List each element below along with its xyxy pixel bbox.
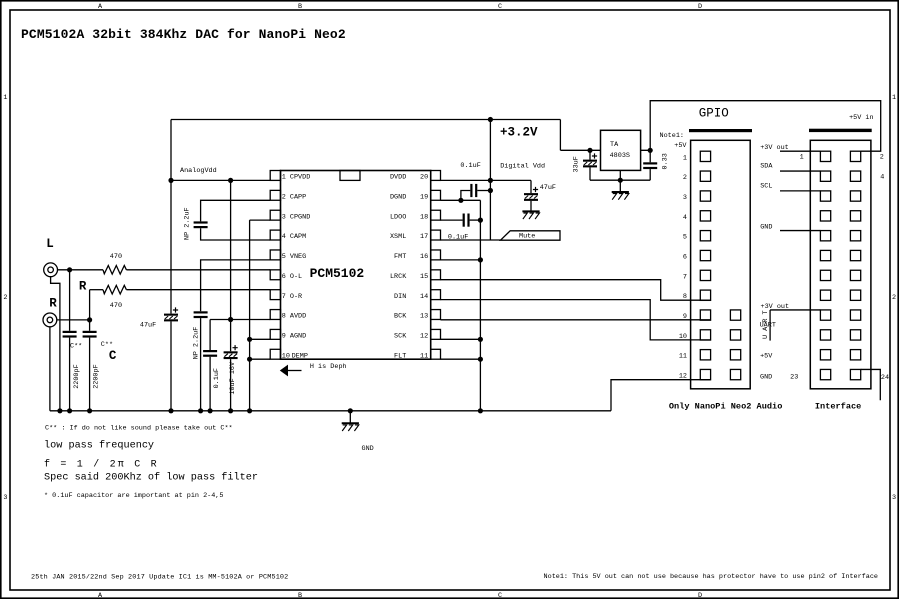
connector J3 GPIO pin 7 pad <box>700 270 710 280</box>
IC U1 right pin 11 FLT box <box>431 349 441 359</box>
wire DGND riser to C9 <box>461 191 470 201</box>
wire regulator input from +5V <box>641 101 881 152</box>
node ground bus junction x=230.6 <box>228 408 233 413</box>
svg-text:SDA: SDA <box>760 163 773 171</box>
svg-text:2200pF: 2200pF <box>73 364 81 388</box>
svg-text:8: 8 <box>683 293 687 301</box>
svg-text:C: C <box>109 349 117 363</box>
svg-text:1: 1 <box>800 154 804 162</box>
wire Interface +3V out row9 stub <box>770 309 820 311</box>
svg-text:SCK: SCK <box>394 333 407 341</box>
svg-text:FLT: FLT <box>394 352 406 360</box>
connector J4 Interface row 8 left pad <box>820 290 830 300</box>
svg-text:2: 2 <box>282 193 286 201</box>
svg-text:Note1: This 5V out can not use: Note1: This 5V out can not use because h… <box>544 573 878 581</box>
capacitor C11 33uF regulator output (electrolytic) <box>583 160 597 162</box>
IC U1 right pin 14 DIN box <box>431 290 441 300</box>
wire pin 8 AVDD to decoupling caps <box>210 319 270 321</box>
wire top rail step down to regulator output <box>559 120 561 151</box>
capacitor C2 2200pF (R) <box>83 331 97 333</box>
connector J4 Interface row 6 left pad <box>820 250 830 260</box>
net flag Mute <box>501 231 561 240</box>
IC U1 left pin 10 DEMP box <box>270 349 280 359</box>
svg-text:11: 11 <box>679 353 687 361</box>
svg-text:10: 10 <box>679 333 687 341</box>
svg-text:AVDD: AVDD <box>290 313 306 321</box>
svg-text:0.33: 0.33 <box>662 153 670 169</box>
svg-text:C**: C** <box>70 342 82 350</box>
connector J4 Interface row 11 left pad <box>820 350 830 360</box>
wire +3.2V top rail horizontal <box>171 119 560 121</box>
wire AnalogVdd rail vertical lower below C 47uF <box>170 321 172 410</box>
node regulator ground junction <box>618 178 623 183</box>
wire junction to R2 <box>90 289 103 291</box>
IC U1 orientation notch <box>340 171 360 181</box>
connector J3 GPIO pin 4 pad <box>700 211 710 221</box>
svg-text:3: 3 <box>683 194 687 202</box>
wire pin 12 SCK to ground vertical <box>441 338 481 340</box>
node ground bus junction x=210.1 <box>208 408 213 413</box>
svg-text:Interface: Interface <box>815 401 861 411</box>
svg-text:47uF: 47uF <box>540 184 556 192</box>
node DVDD rail junction <box>488 178 493 183</box>
svg-text:DEMP: DEMP <box>292 352 308 360</box>
connector J3 GPIO pin 11 pad <box>700 350 710 360</box>
capacitor C8 47uF digital supply (electrolytic) <box>524 193 538 195</box>
node ground bus junction x=480.4 <box>478 408 483 413</box>
connector J4 Interface row 10 left pad <box>820 330 830 340</box>
svg-text:11: 11 <box>420 352 428 360</box>
svg-text:NP 2.2uF: NP 2.2uF <box>183 207 191 240</box>
svg-text:f = 1 / 2π C R: f = 1 / 2π C R <box>44 459 159 471</box>
wire regulator output to TA4803S <box>560 149 600 151</box>
svg-text:GND: GND <box>362 445 374 453</box>
svg-text:D: D <box>698 592 702 600</box>
node AnalogVdd junction at rail <box>168 178 173 183</box>
svg-text:8: 8 <box>282 313 286 321</box>
IC U1 right pin 19 DGND box <box>431 190 441 200</box>
node DGND junction <box>458 198 463 203</box>
svg-text:PCM5102: PCM5102 <box>310 266 365 281</box>
connector J3 GPIO row 11 second pad <box>730 350 740 360</box>
svg-text:25th JAN 2015/22nd Sep 2017 Up: 25th JAN 2015/22nd Sep 2017 Update IC1 i… <box>31 573 288 581</box>
connector J4 Interface row 7 right pad <box>850 270 860 280</box>
svg-text:15: 15 <box>420 273 428 281</box>
node DEMP junction <box>247 357 252 362</box>
svg-text:10: 10 <box>282 352 290 360</box>
svg-text:VNEG: VNEG <box>290 253 306 261</box>
svg-text:SCL: SCL <box>760 182 772 190</box>
capacitor C6 0.1uF AVDD decoupling <box>203 350 217 352</box>
svg-text:1: 1 <box>683 154 687 162</box>
svg-text:C** : If do not like sound ple: C** : If do not like sound please take o… <box>45 424 233 432</box>
ground symbol below regulator <box>619 180 621 192</box>
node ground bus junction x=69.6 <box>67 408 72 413</box>
wire C6 to ground bus <box>209 357 211 411</box>
svg-text:2: 2 <box>880 153 884 161</box>
IC U1 right pin 16 FMT box <box>431 250 441 260</box>
connector J4 Interface row 10 right pad <box>850 330 860 340</box>
wire pin 9 AGND to ground vertical <box>250 338 271 340</box>
node C9 to rail junction <box>488 188 493 193</box>
IC U1 left pin 1 CPVDD box <box>270 171 280 181</box>
connector J3 GPIO pin 2 pad <box>700 171 710 181</box>
svg-text:4: 4 <box>683 214 687 222</box>
wire pin 15 LRCK to GPIO pin 8 <box>441 280 711 301</box>
svg-text:AnalogVdd: AnalogVdd <box>180 167 217 175</box>
wire C1 to ground bus <box>69 338 71 411</box>
ground symbol main bus <box>349 411 351 424</box>
svg-text:O-R: O-R <box>290 293 302 301</box>
svg-text:LRCK: LRCK <box>390 273 407 281</box>
svg-text:B: B <box>298 3 302 11</box>
op IC U1 PCM5102 body <box>281 171 431 360</box>
resistor R1 470 (L channel) <box>103 266 126 275</box>
connector J4 Interface row 4 right pad <box>850 211 860 221</box>
svg-text:5: 5 <box>282 253 286 261</box>
svg-text:12: 12 <box>679 373 687 381</box>
svg-text:DVDD: DVDD <box>390 174 406 182</box>
capacitor C7 10uF 16V AVDD decoupling (electrolytic) <box>224 351 238 353</box>
svg-text:C**: C** <box>101 341 113 349</box>
wire pin 16 FMT to ground vertical <box>441 259 481 261</box>
svg-text:low pass frequency: low pass frequency <box>44 440 154 452</box>
wire C7 to ground bus <box>230 359 232 411</box>
connector J4 Interface row 5 left pad <box>820 231 830 241</box>
node R input junction <box>87 317 92 322</box>
svg-text:TA: TA <box>610 141 619 149</box>
wire Interface SCL stub <box>780 190 820 192</box>
svg-text:12: 12 <box>420 333 428 341</box>
wire regulator ground rail <box>590 179 650 181</box>
wire digital ground vertical to bus <box>479 220 481 411</box>
svg-text:10uF 16V: 10uF 16V <box>229 361 237 395</box>
connector J4 Interface row 6 right pad <box>850 250 860 260</box>
svg-text:XSML: XSML <box>390 233 406 241</box>
node FLT ground junction <box>478 357 483 362</box>
connector J2 RCA jack R <box>43 313 57 327</box>
arrow marker DEMP polarity note <box>280 365 288 377</box>
node ground bus junction x=249.6 <box>247 408 252 413</box>
capacitor C5 NP 2.2uF VNEG decoupling <box>194 311 208 313</box>
svg-text:17: 17 <box>420 233 428 241</box>
svg-text:470: 470 <box>110 253 122 261</box>
node regulator input junction <box>648 148 653 153</box>
regulator U2 TA4803S body <box>601 130 641 170</box>
svg-text:* 0.1uF capacitor are importan: * 0.1uF capacitor are important at pin 2… <box>44 492 223 500</box>
svg-text:GND: GND <box>760 374 772 382</box>
wire C10 to ground vertical <box>470 219 481 221</box>
node ground bus junction x=200.6 <box>198 408 203 413</box>
connector J3 GPIO pin 9 pad <box>700 310 710 320</box>
svg-text:2: 2 <box>683 174 687 182</box>
svg-text:1: 1 <box>892 94 896 102</box>
connector J3 GPIO pin 10 pad <box>700 330 710 340</box>
node ground bus junction x=59.9 <box>57 408 62 413</box>
svg-text:AGND: AGND <box>290 333 306 341</box>
wire R filter cap branch upper <box>89 320 91 331</box>
IC U1 left pin 8 AVDD box <box>270 310 280 320</box>
connector J4 Interface row 12 right pad <box>850 369 860 379</box>
wire L filter cap branch upper <box>69 270 71 331</box>
wire R2 to IC pin 7 O-R <box>126 289 270 291</box>
connector J4 Interface polarity bar <box>809 129 872 132</box>
resistor R2 470 (R channel) <box>103 285 126 294</box>
capacitor C12 0.33 regulator input <box>643 162 657 164</box>
svg-text:Note1:: Note1: <box>660 132 684 140</box>
wire C9 to Digital Vdd rail <box>477 190 490 192</box>
svg-text:5: 5 <box>683 234 687 242</box>
svg-text:Mute: Mute <box>519 233 535 241</box>
svg-text:NP 2.2uF: NP 2.2uF <box>193 327 201 360</box>
svg-text:24: 24 <box>881 374 889 382</box>
wire C11 to ground rail <box>589 167 591 180</box>
capacitor C1 2200pF (L) <box>63 331 77 333</box>
capacitor C9 0.1uF DVDD-DGND decoupling <box>470 184 472 197</box>
svg-text:BCK: BCK <box>394 313 407 321</box>
connector J4 Interface row 4 left pad <box>820 211 830 221</box>
wire flying cap to pin 4 CAPM <box>201 228 271 240</box>
wire pin 17 XSML to Mute flag <box>441 239 501 241</box>
connector J3 GPIO pin 1 pad <box>700 151 710 161</box>
node L input junction <box>67 267 72 272</box>
svg-text:47uF: 47uF <box>140 321 156 329</box>
svg-text:14: 14 <box>420 293 428 301</box>
connector J3 GPIO pin 5 pad <box>700 231 710 241</box>
wire regulator ground pin <box>619 170 621 180</box>
svg-text:33uF: 33uF <box>573 156 581 172</box>
svg-text:9: 9 <box>683 313 687 321</box>
svg-text:16: 16 <box>420 253 428 261</box>
svg-text:+5V: +5V <box>760 353 773 361</box>
connector J3 GPIO row 12 second pad <box>730 369 740 379</box>
svg-text:+5V in: +5V in <box>849 114 873 122</box>
capacitor C3 47uF AnalogVdd decoupling (electrolytic) <box>164 314 178 316</box>
svg-text:CPGND: CPGND <box>290 213 310 221</box>
svg-text:U A R T: U A R T <box>762 310 770 339</box>
connector J4 Interface row 7 left pad <box>820 270 830 280</box>
IC U1 left pin 4 CAPM box <box>270 230 280 240</box>
connector J3 GPIO pin 3 pad <box>700 191 710 201</box>
svg-text:GPIO: GPIO <box>699 107 729 121</box>
node AnalogVdd junction AVDD branch <box>228 178 233 183</box>
svg-text:DIN: DIN <box>394 293 406 301</box>
svg-text:13: 13 <box>420 313 428 321</box>
svg-text:23: 23 <box>790 373 798 381</box>
wire C8 branch down <box>530 180 532 193</box>
connector J4 Interface row 11 right pad <box>850 350 860 360</box>
svg-text:3: 3 <box>3 494 7 502</box>
wire Interface SDA stub <box>780 170 820 172</box>
wire AnalogVdd feed to pin 1 CPVDD <box>171 179 270 181</box>
node +3.2V rail junction <box>488 117 493 122</box>
capacitor C4 NP 2.2uF flying cap CAPP-CAPM <box>194 221 208 223</box>
svg-text:DGND: DGND <box>390 193 406 201</box>
svg-text:R: R <box>79 280 87 294</box>
svg-text:6: 6 <box>282 273 286 281</box>
connector J4 Interface row 5 right pad <box>850 231 860 241</box>
svg-text:1: 1 <box>3 94 7 102</box>
connector J4 Interface row 3 left pad <box>820 191 830 201</box>
svg-text:0.1uF: 0.1uF <box>460 162 480 170</box>
IC U1 right pin 17 XSML box <box>431 230 441 240</box>
wire L jack ground tail <box>51 276 60 410</box>
svg-text:2200pF: 2200pF <box>93 364 101 388</box>
svg-text:CPVDD: CPVDD <box>290 174 310 182</box>
wire ground bus step up to GPIO pin 12 <box>611 380 711 411</box>
wire pin 20 DVDD to rail and C8 <box>441 179 532 181</box>
svg-text:Only NanoPi Neo2 Audio: Only NanoPi Neo2 Audio <box>669 401 782 411</box>
wire pin 3 CPGND to ground vertical <box>250 219 271 221</box>
svg-text:+3V out: +3V out <box>761 303 790 311</box>
svg-text:9: 9 <box>282 333 286 341</box>
connector J4 Interface row 2 right pad <box>850 171 860 181</box>
wire C5 to ground bus <box>200 318 202 411</box>
svg-text:Digital Vdd: Digital Vdd <box>500 162 545 170</box>
svg-text:2: 2 <box>892 294 896 302</box>
svg-text:20: 20 <box>420 174 428 182</box>
svg-text:1: 1 <box>282 174 286 182</box>
IC U1 right pin 20 DVDD box <box>431 171 441 181</box>
capacitor C10 0.1uF LDOO decoupling <box>463 214 465 227</box>
connector J4 Interface row 12 left pad <box>820 369 830 379</box>
connector J4 Interface row 3 right pad <box>850 191 860 201</box>
svg-text:4: 4 <box>880 174 884 182</box>
node AGND junction <box>247 337 252 342</box>
svg-text:H is Deph: H is Deph <box>310 363 347 371</box>
wire Interface GND row5 stub <box>780 230 820 232</box>
svg-text:R: R <box>49 297 57 311</box>
svg-text:O-L: O-L <box>290 273 302 281</box>
svg-text:7: 7 <box>683 273 687 281</box>
wire 0.33 cap branch <box>649 150 651 162</box>
svg-text:Spec said 200Khz of low pass f: Spec said 200Khz of low pass filter <box>44 471 258 483</box>
connector J1 RCA jack L <box>44 263 58 277</box>
wire pin 11 FLT to ground vertical <box>441 358 481 360</box>
svg-text:C: C <box>498 592 502 600</box>
node ground bus junction x=89.6 <box>87 408 92 413</box>
IC U1 right pin 12 SCK box <box>431 329 441 339</box>
wire R junction riser to resistor row <box>89 290 91 320</box>
svg-text:0.1uF: 0.1uF <box>213 368 221 388</box>
wire pin 13 BCK to GPIO pin 9 <box>441 319 711 321</box>
IC U1 left pin 9 AGND box <box>270 329 280 339</box>
IC U1 left pin 3 CPGND box <box>270 210 280 220</box>
svg-text:B: B <box>298 592 302 600</box>
ground symbol below C8 <box>522 210 539 212</box>
svg-text:6: 6 <box>683 254 687 262</box>
wire DGND drop to LDOO cap <box>479 200 481 220</box>
svg-text:19: 19 <box>420 193 428 201</box>
IC U1 left pin 5 VNEG box <box>270 250 280 260</box>
IC U1 left pin 6 O-L box <box>270 270 280 280</box>
wire Digital Vdd rail vertical <box>489 120 491 241</box>
IC U1 left pin 2 CAPP box <box>270 190 280 200</box>
svg-text:2: 2 <box>3 294 7 302</box>
wire R1 to IC pin 6 O-L <box>126 269 270 271</box>
node ground bus junction x=171 <box>168 408 173 413</box>
wire CPGND/AGND/DEMP ground vertical <box>249 220 251 411</box>
svg-text:FMT: FMT <box>394 253 406 261</box>
wire AnalogVdd rail vertical upper <box>170 120 172 314</box>
svg-text:3: 3 <box>282 213 286 221</box>
svg-text:L: L <box>46 237 54 251</box>
wire Interface pin24 stub <box>861 369 881 400</box>
node AVDD decoupling junction <box>228 317 233 322</box>
connector J3 GPIO pin 8 pad <box>700 290 710 300</box>
connector J3 GPIO polarity bar <box>689 129 752 132</box>
connector J4 Interface row 1 left pad <box>820 151 830 161</box>
connector J3 GPIO row 10 second pad <box>730 330 740 340</box>
svg-text:LDOO: LDOO <box>390 213 406 221</box>
connector J3 GPIO pin 12 pad <box>700 369 710 379</box>
svg-text:CAPM: CAPM <box>290 233 306 241</box>
svg-text:CAPP: CAPP <box>290 193 306 201</box>
svg-text:3: 3 <box>892 494 896 502</box>
wire C2 to ground bus <box>89 338 91 411</box>
node ground bus junction x=350.3 <box>348 408 353 413</box>
IC U1 right pin 13 BCK box <box>431 310 441 320</box>
IC U1 right pin 18 LDOO box <box>431 210 441 220</box>
connector J4 Interface row 1 right pad <box>850 151 860 161</box>
svg-text:18: 18 <box>420 213 428 221</box>
node SCK ground junction <box>478 337 483 342</box>
svg-text:470: 470 <box>110 302 122 310</box>
svg-text:D: D <box>698 3 702 11</box>
node regulator output junction <box>587 148 592 153</box>
wire Interface pin1 +3V out stub <box>780 150 820 152</box>
IC U1 left pin 7 O-R box <box>270 290 280 300</box>
wire pin 14 DIN to GPIO pin 10 <box>441 300 711 340</box>
svg-text:+3.2V: +3.2V <box>500 125 538 139</box>
wire 33uF cap branch <box>589 150 591 159</box>
wire main ground bus <box>50 410 611 412</box>
svg-text:4803S: 4803S <box>610 152 630 160</box>
wire C8 to ground symbol <box>530 201 532 212</box>
wire R jack to junction <box>57 319 90 321</box>
connector J4 Interface body <box>810 140 871 388</box>
wire pin 18 LDOO to C10 <box>441 219 463 221</box>
connector J4 Interface row 2 left pad <box>820 171 830 181</box>
svg-text:7: 7 <box>282 293 286 301</box>
node FMT ground junction <box>478 257 483 262</box>
svg-text:C: C <box>498 3 502 11</box>
connector J4 Interface row 9 right pad <box>850 310 860 320</box>
svg-text:+3V out: +3V out <box>760 144 789 152</box>
connector J3 GPIO row 9 second pad <box>730 310 740 320</box>
connector J4 Interface row 9 left pad <box>820 310 830 320</box>
wire pin 5 VNEG branch <box>201 260 271 311</box>
wire AVDD vertical from AnalogVdd rail <box>230 180 232 351</box>
connector J4 Interface row 8 right pad <box>850 290 860 300</box>
svg-text:GND: GND <box>760 224 772 232</box>
wire R jack ground tail to bus <box>49 327 51 411</box>
node LDOO cap junction <box>478 218 483 223</box>
IC U1 right pin 15 LRCK box <box>431 270 441 280</box>
connector J3 GPIO body <box>691 140 751 388</box>
wire L jack to resistor 470 <box>57 269 103 271</box>
wire 0.1uF branch down <box>209 320 211 351</box>
svg-text:+5V: +5V <box>674 142 687 150</box>
connector J3 GPIO pin 6 pad <box>700 250 710 260</box>
wire UART bracket line <box>769 310 771 341</box>
wire pin 10 DEMP to ground vertical <box>250 358 271 360</box>
svg-text:4: 4 <box>282 233 286 241</box>
wire pin 19 DGND <box>441 199 481 201</box>
wire pin 2 CAPP to flying cap <box>201 200 271 221</box>
svg-text:PCM5102A 32bit 384Khz DAC for: PCM5102A 32bit 384Khz DAC for NanoPi Neo… <box>21 27 346 42</box>
wire C12 to ground rail <box>649 169 651 180</box>
